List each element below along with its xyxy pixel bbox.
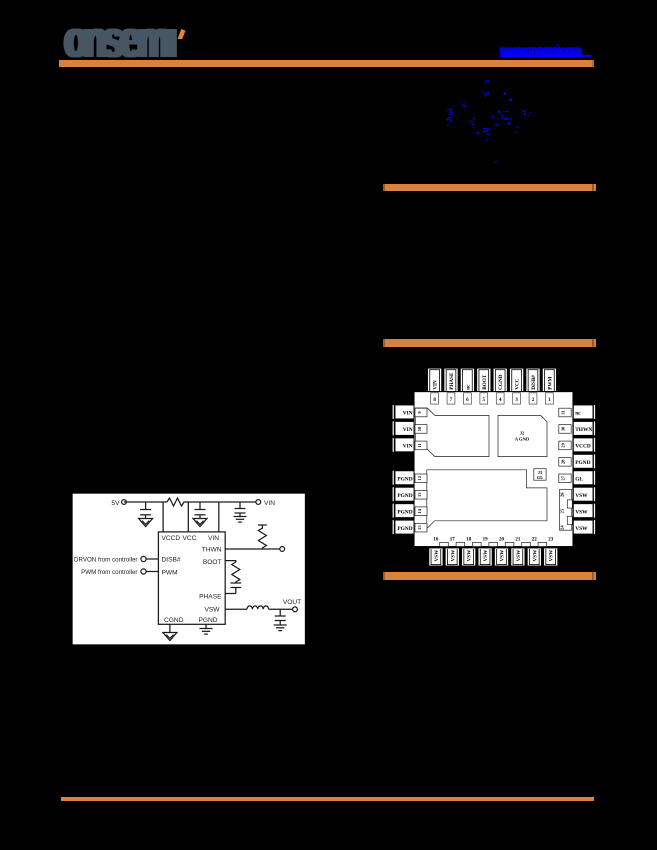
svg-text:VSW: VSW: [434, 549, 440, 562]
svg-text:VSW: VSW: [575, 493, 588, 499]
svg-text:PGND: PGND: [397, 509, 412, 515]
svg-text:19: 19: [483, 538, 489, 543]
svg-text:VSW: VSW: [467, 549, 473, 562]
svg-text:13: 13: [417, 492, 422, 497]
svg-text:VSW: VSW: [516, 549, 522, 562]
svg-text:A GND: A GND: [515, 437, 530, 442]
svg-text:VSW: VSW: [450, 549, 456, 562]
svg-text:VCCD: VCCD: [575, 444, 591, 450]
svg-text:11: 11: [417, 443, 422, 448]
svg-text:PGND: PGND: [397, 493, 412, 499]
svg-text:VIN: VIN: [403, 444, 413, 450]
svg-text:GL: GL: [537, 475, 543, 480]
svg-text:THWN: THWN: [202, 547, 222, 554]
svg-text:VIN: VIN: [433, 380, 439, 390]
svg-text:PWM: PWM: [162, 570, 178, 577]
svg-text:PGND: PGND: [397, 476, 412, 482]
svg-text:nc: nc: [465, 384, 471, 390]
svg-text:5V: 5V: [111, 500, 120, 507]
svg-text:VSW: VSW: [532, 549, 538, 562]
svg-text:12: 12: [417, 475, 422, 480]
svg-text:22: 22: [532, 538, 538, 543]
svg-text:VIN: VIN: [264, 500, 275, 507]
svg-text:18: 18: [466, 538, 472, 543]
svg-text:28: 28: [561, 459, 566, 464]
svg-text:J2: J2: [520, 431, 525, 436]
svg-text:VSW: VSW: [500, 549, 506, 562]
svg-text:BOOT: BOOT: [482, 374, 488, 390]
svg-text:VSW: VSW: [549, 549, 555, 562]
svg-text:VCC: VCC: [183, 535, 197, 542]
svg-text:VIN: VIN: [403, 411, 413, 417]
svg-text:10: 10: [417, 426, 422, 431]
svg-text:VSW: VSW: [483, 549, 489, 562]
svg-text:21: 21: [515, 538, 521, 543]
svg-text:PWM: PWM: [547, 376, 553, 389]
svg-text:DRVON from controller: DRVON from controller: [74, 557, 138, 564]
svg-text:CGND: CGND: [164, 617, 184, 624]
svg-text:nc: nc: [575, 411, 581, 417]
svg-text:PGND: PGND: [397, 526, 412, 532]
svg-text:PGND: PGND: [575, 460, 590, 466]
svg-text:VCC: VCC: [515, 378, 521, 389]
svg-text:DISB#: DISB#: [531, 375, 537, 390]
svg-text:30: 30: [561, 426, 566, 431]
svg-text:14: 14: [417, 508, 422, 513]
svg-text:26: 26: [560, 492, 565, 497]
svg-text:29: 29: [561, 442, 566, 447]
svg-text:DISB#: DISB#: [162, 557, 181, 564]
svg-text:23: 23: [548, 538, 554, 543]
svg-text:PHASE: PHASE: [199, 594, 222, 601]
svg-text:VSW: VSW: [204, 607, 220, 614]
svg-text:27: 27: [561, 475, 566, 480]
svg-text:VSW: VSW: [575, 509, 588, 515]
svg-text:15: 15: [417, 525, 422, 530]
svg-text:VSW: VSW: [575, 526, 588, 532]
svg-text:PWM from controller: PWM from controller: [81, 569, 137, 576]
svg-text:31: 31: [561, 410, 566, 415]
svg-text:VIN: VIN: [208, 535, 219, 542]
svg-text:GL: GL: [575, 476, 583, 482]
svg-text:VCCD: VCCD: [162, 535, 181, 542]
svg-text:17: 17: [450, 538, 456, 543]
svg-text:PGND: PGND: [198, 617, 217, 624]
svg-text:BOOT: BOOT: [203, 559, 222, 566]
svg-text:THWN: THWN: [575, 427, 592, 433]
svg-text:CGND: CGND: [498, 374, 504, 390]
svg-text:VIN: VIN: [403, 427, 413, 433]
svg-text:16: 16: [433, 538, 439, 543]
svg-text:25: 25: [560, 508, 565, 513]
svg-text:VOUT: VOUT: [283, 599, 301, 606]
svg-text:PHASE: PHASE: [449, 372, 455, 390]
svg-text:20: 20: [499, 538, 505, 543]
svg-text:24: 24: [560, 525, 565, 530]
